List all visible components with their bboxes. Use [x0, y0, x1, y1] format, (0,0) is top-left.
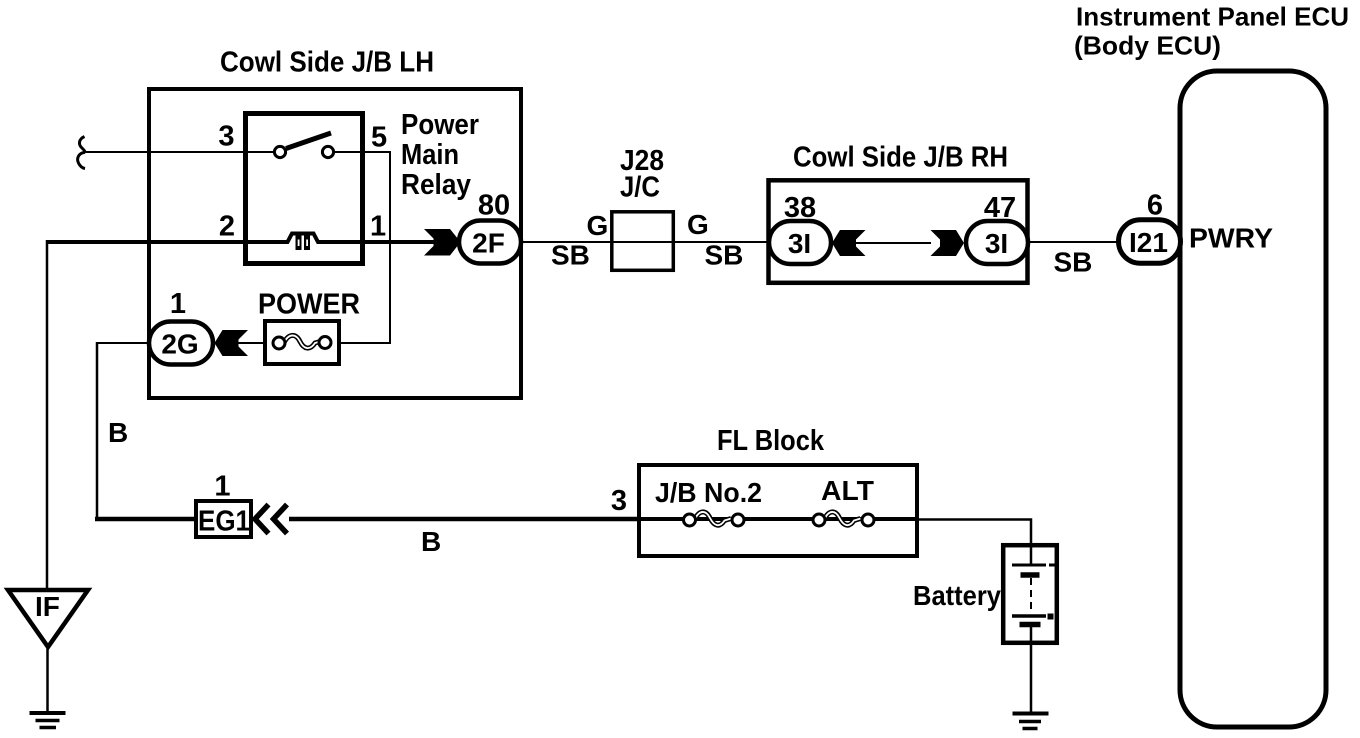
relay box (Power Main Relay) [246, 114, 363, 264]
svg-text:6: 6 [1147, 190, 1163, 222]
male arrow into 2F [424, 229, 461, 256]
male arrow (47 side) [931, 230, 965, 256]
battery cell symbol [1012, 545, 1055, 712]
svg-text:80: 80 [478, 190, 510, 222]
wire: 2G left to vertical branch [97, 342, 156, 344]
connector 3I (38) [769, 221, 831, 264]
wire: relay pin 5 to POWER fuse (via vertical drop) [334, 152, 390, 343]
svg-text:5: 5 [371, 122, 387, 154]
wire: EG1 chevrons to FL Block (B) [289, 517, 638, 522]
wire: main thick line with relay coil bump (node from left drop to 2F arrow) [47, 234, 434, 243]
svg-text:2F: 2F [472, 228, 505, 259]
svg-text:SB: SB [551, 240, 590, 271]
instrument panel ECU box [1180, 71, 1326, 727]
svg-text:B: B [108, 417, 128, 448]
connector EG1 [196, 501, 251, 537]
ground (battery) [1013, 714, 1049, 729]
relay switch contact pin 3 [274, 146, 285, 157]
female arrow (38 side) [832, 230, 866, 256]
svg-text:J/C: J/C [620, 172, 660, 204]
svg-text:2G: 2G [161, 329, 198, 360]
wire: 2F to J28 to Cowl Side J/B RH (SB) [521, 241, 769, 243]
wire: FL Block to battery positive [919, 520, 1031, 546]
svg-text:3I: 3I [985, 228, 1008, 259]
svg-text:SB: SB [1054, 247, 1093, 278]
svg-text:3: 3 [611, 485, 627, 517]
wire: left vertical drop to IF connector [46, 240, 49, 590]
svg-text:B: B [421, 526, 441, 557]
svg-text:J/B No.2: J/B No.2 [655, 477, 762, 508]
svg-text:2: 2 [219, 211, 235, 243]
svg-text:I21: I21 [1129, 227, 1168, 258]
wire: 3I (47) to I21 (SB) [1028, 241, 1120, 243]
wire: through FL Block fusible links [637, 517, 919, 521]
svg-text:Cowl Side J/B RH: Cowl Side J/B RH [793, 142, 1008, 174]
cowl side J/B LH box [149, 89, 521, 398]
svg-text:Main: Main [401, 139, 459, 171]
wire arrow to POWER fuse [237, 342, 265, 344]
ground (IF) [30, 713, 66, 728]
wire: squiggle to relay pin 3 [86, 151, 274, 153]
svg-text:3I: 3I [788, 228, 811, 259]
svg-text:IF: IF [35, 591, 60, 622]
POWER fuse box [265, 321, 339, 364]
svg-text:Battery: Battery [913, 580, 1001, 611]
wire: branch to EG1 [95, 517, 194, 522]
svg-text:EG1: EG1 [198, 506, 250, 538]
connector IF triangle [8, 590, 88, 647]
svg-text:FL Block: FL Block [717, 425, 825, 457]
EG1 double chevron [255, 505, 269, 534]
wire: between 3I connectors inside RH J/B [831, 242, 931, 244]
svg-text:POWER: POWER [258, 289, 360, 321]
relay switch contact pin 5 [322, 146, 333, 157]
POWER fuse element [273, 335, 331, 349]
svg-text:SB: SB [705, 240, 744, 271]
svg-text:Relay: Relay [401, 169, 471, 201]
svg-text:Cowl Side J/B LH: Cowl Side J/B LH [220, 47, 434, 79]
svg-text:1: 1 [370, 211, 386, 243]
relay switch lever [286, 133, 331, 149]
wire: IF triangle to ground [46, 646, 49, 712]
svg-text:PWRY: PWRY [1189, 223, 1273, 254]
relay coil loops [296, 234, 311, 251]
svg-text:G: G [687, 209, 709, 240]
wire break squiggle (left of pin 3 wire) [78, 137, 85, 169]
svg-text:Power: Power [401, 109, 479, 141]
svg-text:1: 1 [170, 288, 186, 320]
svg-text:(Body ECU): (Body ECU) [1074, 31, 1221, 61]
connector 2G [149, 322, 213, 365]
svg-text:Instrument Panel ECU: Instrument Panel ECU [1076, 2, 1349, 32]
connector 3I (47) [966, 221, 1028, 264]
battery box [1003, 545, 1057, 643]
FL block box [639, 465, 917, 556]
connector I21 [1119, 220, 1181, 263]
connector 2F [459, 221, 521, 264]
svg-text:ALT: ALT [821, 475, 874, 506]
cowl side J/B RH box [769, 180, 1028, 282]
svg-text:G: G [587, 210, 609, 241]
svg-text:3: 3 [218, 121, 234, 153]
female arrow from 2G [215, 330, 249, 356]
wire: vertical branch down (B) [96, 342, 99, 519]
svg-text:1: 1 [214, 471, 230, 503]
